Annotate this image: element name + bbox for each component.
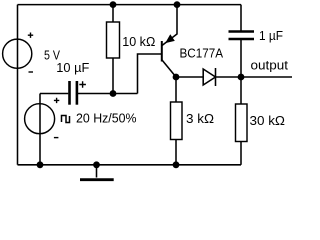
svg-text:BC177A: BC177A (180, 46, 224, 61)
svg-text:3 kΩ: 3 kΩ (186, 111, 214, 126)
svg-text:output: output (251, 58, 289, 73)
svg-text:20 Hz/50%: 20 Hz/50% (76, 110, 137, 125)
svg-text:10 kΩ: 10 kΩ (122, 34, 155, 49)
svg-text:30 kΩ: 30 kΩ (250, 113, 286, 128)
svg-text:10 µF: 10 µF (56, 60, 89, 75)
svg-text:1 µF: 1 µF (259, 28, 283, 43)
